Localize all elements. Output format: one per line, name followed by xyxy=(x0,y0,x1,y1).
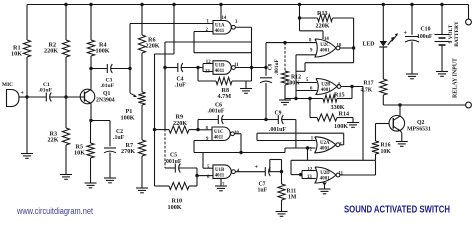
ground R3 xyxy=(60,174,72,176)
svg-text:www.circuitdiagram.net: www.circuitdiagram.net xyxy=(16,206,93,216)
resistor R9 xyxy=(155,129,170,131)
svg-text:R13: R13 xyxy=(317,10,328,17)
resistor R2 xyxy=(65,5,67,41)
op U2B 4001 gate xyxy=(316,79,337,95)
ground U1B xyxy=(215,185,227,187)
svg-text:U2A: U2A xyxy=(320,141,330,146)
wire feedback row y152 xyxy=(194,152,285,154)
svg-text:4011: 4011 xyxy=(214,135,224,140)
ground C10 xyxy=(406,73,418,75)
wire C9 to U2A pin2 xyxy=(295,120,297,149)
svg-text:.1uF: .1uF xyxy=(113,135,125,141)
svg-text:U1A: U1A xyxy=(215,23,225,28)
node R9 left xyxy=(153,128,156,131)
wire column x296 xyxy=(295,55,297,99)
op U2D 4001 gate xyxy=(315,167,336,183)
svg-text:22K: 22K xyxy=(48,137,59,144)
svg-text:4.7K: 4.7K xyxy=(361,88,373,94)
capacitor C4 xyxy=(165,67,178,69)
svg-text:100K: 100K xyxy=(121,115,135,122)
wire U2D output xyxy=(340,174,376,176)
svg-text:.001uF: .001uF xyxy=(269,127,286,133)
op U1C 4011 gate xyxy=(212,127,230,141)
svg-text:U1B: U1B xyxy=(215,168,225,173)
transistor Q2 MPS6531 xyxy=(389,116,405,132)
svg-text:4001: 4001 xyxy=(320,177,330,182)
svg-text:12: 12 xyxy=(308,167,313,172)
resistor R8 xyxy=(197,68,199,82)
node U1C out junction xyxy=(239,151,242,154)
wire wiper/C3 column xyxy=(129,24,131,94)
op U1D 4011 gate xyxy=(213,61,231,75)
svg-text:2N3904: 2N3904 xyxy=(96,97,115,103)
node R13 left xyxy=(298,16,301,19)
resistor R10 xyxy=(155,185,170,187)
op U1A 4011 gate xyxy=(213,21,231,35)
svg-text:100K: 100K xyxy=(96,48,110,55)
ground R7 xyxy=(136,187,148,189)
svg-text:1M: 1M xyxy=(288,195,297,201)
node U1D input xyxy=(196,66,199,69)
node Q2 collector xyxy=(398,103,401,106)
wire mic ground xyxy=(26,97,28,154)
resistor R14 xyxy=(309,99,311,118)
wire U1B pin7 ground xyxy=(220,178,222,186)
node U1B pin6 xyxy=(195,174,198,177)
ground battery xyxy=(436,71,448,73)
wire feedback row y160 xyxy=(291,159,376,161)
svg-text:R16: R16 xyxy=(381,143,391,149)
svg-text:100K: 100K xyxy=(168,204,182,211)
resistor R11 xyxy=(281,172,283,184)
wire U2B output xyxy=(341,86,363,88)
wire feedback column x155 xyxy=(154,54,156,186)
node C4 left xyxy=(163,66,166,69)
ground R8 xyxy=(245,81,247,89)
svg-text:220K: 220K xyxy=(316,23,330,30)
ground C2 xyxy=(104,177,116,179)
svg-text:BATTERY: BATTERY xyxy=(454,21,460,47)
svg-text:13: 13 xyxy=(307,175,312,180)
svg-text:100K: 100K xyxy=(334,123,348,130)
node C3-wiper junction xyxy=(128,67,131,70)
svg-text:.01uF: .01uF xyxy=(39,88,53,94)
svg-text:11: 11 xyxy=(339,171,344,176)
wire U1D output row xyxy=(235,67,266,69)
capacitor C6 xyxy=(198,119,218,121)
wire supply drop x174 xyxy=(172,3,175,6)
resistor R5 xyxy=(90,121,92,144)
node U1A-U1D output junction xyxy=(250,66,253,69)
wire R13 right column xyxy=(353,18,355,63)
svg-text:.001uF: .001uF xyxy=(274,58,280,74)
node U1C pin8 xyxy=(196,128,199,131)
capacitor C10 xyxy=(410,3,413,6)
svg-text:R17: R17 xyxy=(364,81,374,87)
wire C4 column xyxy=(164,42,166,129)
svg-text:100uF: 100uF xyxy=(417,34,433,40)
wire U2D pin7 ground xyxy=(322,183,326,186)
resistor R4 xyxy=(89,3,92,6)
svg-text:.01uF: .01uF xyxy=(101,83,115,89)
wire U2A output xyxy=(340,144,344,146)
svg-text:220K: 220K xyxy=(44,48,58,55)
resistor R15 xyxy=(323,95,337,102)
ground mic xyxy=(21,153,33,155)
svg-text:+: + xyxy=(21,91,25,97)
ground U2D xyxy=(319,188,331,190)
svg-text:+: + xyxy=(255,164,259,171)
terminal relay lower xyxy=(466,102,472,108)
svg-text:13: 13 xyxy=(205,69,210,74)
svg-text:C9: C9 xyxy=(275,111,282,117)
svg-text:270K: 270K xyxy=(121,148,135,155)
wire U2A pin2 row xyxy=(285,147,316,149)
svg-text:Q2: Q2 xyxy=(417,120,425,126)
ground R12 row xyxy=(284,99,286,101)
wire U1C output xyxy=(234,133,241,135)
ground R11 xyxy=(276,211,288,213)
svg-text:10K: 10K xyxy=(381,149,392,155)
capacitor C7 xyxy=(235,171,265,173)
svg-text:4011: 4011 xyxy=(215,173,225,178)
svg-text:C5: C5 xyxy=(170,153,177,159)
svg-text:4001: 4001 xyxy=(321,88,331,93)
microphone MIC xyxy=(7,90,20,107)
ground R14 xyxy=(352,118,354,123)
svg-text:.001uF: .001uF xyxy=(165,159,182,165)
svg-text:C10: C10 xyxy=(421,27,431,33)
resistor R7 xyxy=(141,105,143,140)
wire U1A pin2 link xyxy=(194,31,213,33)
resistor R16 xyxy=(375,124,377,142)
node U2B out xyxy=(350,85,353,88)
svg-text:4.7M: 4.7M xyxy=(218,93,232,100)
svg-text:RELAY INPUT: RELAY INPUT xyxy=(453,58,459,98)
wire C5/R10 right column xyxy=(196,168,198,186)
svg-text:4011: 4011 xyxy=(215,69,225,74)
terminal relay upper xyxy=(468,5,470,20)
wire C7 riser box xyxy=(270,159,282,161)
svg-text:U2B: U2B xyxy=(321,83,331,88)
svg-text:.1uF: .1uF xyxy=(175,83,187,89)
capacitor C5 xyxy=(165,167,175,169)
transistor Q1 2N3904 xyxy=(80,89,95,104)
svg-text:4001: 4001 xyxy=(320,147,330,152)
svg-text:100K: 100K xyxy=(287,81,301,87)
wire U2C output xyxy=(340,47,354,49)
wire emitter row xyxy=(91,120,110,122)
svg-text:1uF: 1uF xyxy=(258,188,268,194)
node mic output junction xyxy=(25,95,28,98)
svg-text:C8: C8 xyxy=(268,63,274,70)
svg-text:MIC: MIC xyxy=(2,82,13,88)
svg-text:U2C: U2C xyxy=(320,43,330,48)
svg-text:MPS6531: MPS6531 xyxy=(407,126,431,132)
wire U2C pin14 link xyxy=(300,30,324,32)
resistor R3 xyxy=(65,97,67,128)
svg-text:220K: 220K xyxy=(173,120,187,127)
wire row y52.7 xyxy=(194,52,252,54)
node C7 output xyxy=(280,170,283,173)
resistor R1 xyxy=(26,5,28,41)
capacitor C2 xyxy=(109,121,111,147)
wire x363 column xyxy=(362,87,364,161)
svg-text:R15: R15 xyxy=(334,92,345,99)
battery 9V xyxy=(440,3,443,6)
resistor R17 xyxy=(382,47,384,79)
wire U2A pin1 feedback loop xyxy=(257,132,344,134)
node U2D input xyxy=(299,173,302,176)
node R12 top xyxy=(283,41,286,44)
svg-text:+: + xyxy=(404,30,408,37)
svg-text:Q1: Q1 xyxy=(103,91,111,97)
svg-text:U1D: U1D xyxy=(215,64,225,69)
svg-text:10K: 10K xyxy=(74,150,85,157)
wire row y42 xyxy=(165,41,252,43)
wire U1A output xyxy=(235,26,251,28)
ground Q2 emitter xyxy=(396,141,408,143)
svg-text:LED: LED xyxy=(363,42,375,48)
LED indicator xyxy=(382,3,385,6)
wire Q2 base xyxy=(376,123,390,125)
resistor R6 xyxy=(140,3,143,6)
node base junction xyxy=(64,95,67,98)
op U1B 4011 gate xyxy=(213,165,231,179)
svg-text:10K: 10K xyxy=(11,51,22,58)
capacitor C1 xyxy=(27,96,46,98)
op U2C 4001 gate xyxy=(315,39,336,57)
svg-text:R14: R14 xyxy=(339,111,350,118)
svg-text:U1C: U1C xyxy=(214,130,224,135)
svg-text:U2D: U2D xyxy=(320,171,330,176)
svg-text:14: 14 xyxy=(222,16,227,21)
wire U1A pin1 row xyxy=(130,23,213,25)
node Q1 collector xyxy=(89,67,92,70)
potentiometer P1 xyxy=(138,92,145,105)
svg-text:.001uF: .001uF xyxy=(208,109,225,115)
svg-text:4001: 4001 xyxy=(320,49,330,54)
resistor R12 xyxy=(284,43,286,71)
svg-text:220K: 220K xyxy=(146,43,160,50)
svg-text:12: 12 xyxy=(206,60,211,65)
capacitor C8 column xyxy=(264,66,267,69)
wire U2C out to U2B link xyxy=(305,62,354,64)
svg-text:SOUND ACTIVATED SWITCH: SOUND ACTIVATED SWITCH xyxy=(344,205,450,216)
capacitor C3 xyxy=(91,68,107,70)
ground R5 xyxy=(85,182,97,184)
wire R12/R15 row xyxy=(285,98,323,100)
resistor R13 xyxy=(300,17,318,19)
op U2A 4001 gate xyxy=(315,137,336,153)
node Q1 emitter xyxy=(89,119,92,122)
wire relay row xyxy=(383,104,465,106)
capacitor C9 xyxy=(264,118,267,121)
svg-text:4011: 4011 xyxy=(215,29,225,34)
wire row y54 xyxy=(155,53,175,55)
wire V+ drop x300 xyxy=(298,3,301,6)
wire V+ top rail xyxy=(27,4,469,6)
